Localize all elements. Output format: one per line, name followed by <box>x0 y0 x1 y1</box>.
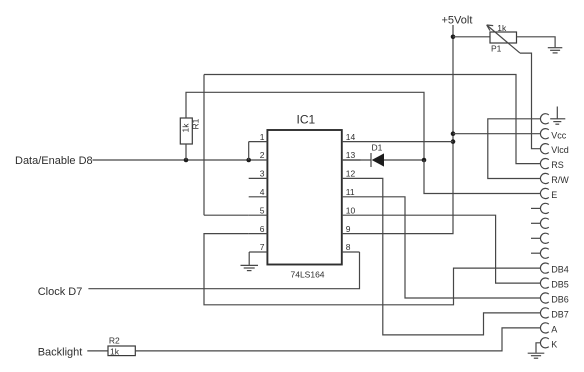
wire pin 1 tied down to pin 2 <box>248 142 250 160</box>
svg-text:2: 2 <box>260 150 265 160</box>
pin 6 lead <box>249 233 268 235</box>
svg-text:DB7: DB7 <box>551 309 569 319</box>
svg-text:Vlcd: Vlcd <box>551 145 569 155</box>
connector pin 8 DB1 arc (unused) <box>540 218 548 228</box>
svg-text:8: 8 <box>346 242 351 252</box>
ground at pin 7 <box>241 252 259 271</box>
connector pin 9 DB2 arc (unused) <box>540 233 548 243</box>
node: Vcc wire tap on +5V rail <box>451 131 456 136</box>
svg-text:Clock D7: Clock D7 <box>38 286 83 298</box>
wire Backlight to R2 <box>87 350 108 352</box>
connector pin 14 DB7 arc <box>540 308 548 318</box>
svg-text:74LS164: 74LS164 <box>291 270 325 280</box>
node: junction dot at pin1/pin2 tie <box>246 158 251 163</box>
svg-text:R1: R1 <box>191 118 201 129</box>
node: junction dot at diode anode / R1 pullup / E <box>422 158 427 163</box>
node: +5V tap to potentiometer <box>451 35 456 40</box>
P1 wiper arrow diagonal <box>487 25 520 53</box>
svg-text:6: 6 <box>260 224 265 234</box>
potentiometer P1 body <box>490 32 517 43</box>
IC U1 body (IC1 74LS164) <box>267 130 341 265</box>
diode D1 <box>371 153 384 167</box>
svg-text:1: 1 <box>260 132 265 142</box>
pin 11 lead <box>342 196 361 198</box>
wire connector gnd pin to R/W pin (R/W tied low) <box>488 119 541 179</box>
connector pin 16 K arc <box>540 338 548 348</box>
pin 1 lead <box>249 141 268 143</box>
pin 2 lead <box>249 159 268 161</box>
svg-text:9: 9 <box>346 224 351 234</box>
wire pin 6 left, down and across to DB4 riser <box>204 234 541 305</box>
pin 13 lead <box>342 159 361 161</box>
svg-text:13: 13 <box>346 150 356 160</box>
wire vertical x=204 from top rail y=74.5 down to pin 5 <box>203 75 205 216</box>
svg-text:IC1: IC1 <box>297 113 316 127</box>
svg-text:4: 4 <box>260 187 265 197</box>
wire R1 bottom to data line <box>185 144 187 160</box>
wire K pin to ground <box>536 343 541 353</box>
+5V rail: vertical down to pin 9 (CLR tied high) <box>361 25 454 234</box>
pin 5 lead <box>249 214 268 216</box>
wire Data/Enable D8 to pin 2 <box>93 159 249 161</box>
svg-text:Backlight: Backlight <box>38 347 83 359</box>
wire long RS branch from x204 top across to RS pin <box>204 75 541 164</box>
wire diode anode to E node <box>384 159 424 161</box>
connector pin 4 RS arc <box>540 159 548 169</box>
pin 7 lead <box>249 251 267 253</box>
wire pin 5 from long RS branch vertical <box>204 214 249 216</box>
svg-text:E: E <box>551 190 557 200</box>
svg-text:D1: D1 <box>372 143 383 153</box>
stub wire DB3 <box>531 252 541 254</box>
connector pin 3 Vlcd arc <box>540 144 548 154</box>
wire pin 14 to +5V rail <box>361 141 454 143</box>
connector pin 5 R/W arc <box>540 173 548 183</box>
svg-text:DB6: DB6 <box>551 295 569 305</box>
svg-text:1k: 1k <box>110 347 120 357</box>
svg-text:DB4: DB4 <box>551 265 569 275</box>
pin 4 lead (QB, unconnected) <box>249 196 268 198</box>
connector pin 10 DB3 arc (unused) <box>540 248 548 258</box>
svg-text:11: 11 <box>346 187 355 197</box>
svg-text:14: 14 <box>346 132 356 142</box>
connector pin 1 (Vss) arc <box>540 114 548 124</box>
svg-text:+5Volt: +5Volt <box>442 15 473 27</box>
wire pin 13 to diode cathode <box>342 159 371 161</box>
ground at P1 <box>548 48 563 53</box>
connector pin 6 E arc <box>540 188 548 198</box>
svg-text:1k: 1k <box>497 23 507 33</box>
svg-text:A: A <box>551 324 557 334</box>
stub wire DB1 <box>531 222 541 224</box>
resistor R2 body <box>108 346 135 356</box>
svg-text:RS: RS <box>551 160 564 170</box>
stub wire DB0 <box>531 207 541 209</box>
svg-text:12: 12 <box>346 169 356 179</box>
svg-text:R/W: R/W <box>551 175 569 185</box>
connector pin 15 A arc <box>540 323 548 333</box>
connector pin 11 DB4 arc <box>540 263 548 273</box>
svg-text:10: 10 <box>346 205 356 215</box>
resistor R1 body <box>180 118 192 144</box>
connector pin 12 DB5 arc <box>540 278 548 288</box>
svg-text:Vcc: Vcc <box>551 130 567 140</box>
wire pin 11 to DB6 <box>361 197 541 298</box>
svg-text:5: 5 <box>260 205 265 215</box>
wire pin 12 to DB7 <box>361 178 541 335</box>
svg-text:7: 7 <box>260 242 265 252</box>
wire P1 right end to ground <box>517 37 556 47</box>
wire P1 wiper to Vlcd pin <box>520 53 541 149</box>
connector pin 13 DB6 arc <box>540 293 548 303</box>
pin 12 lead <box>342 177 361 179</box>
svg-text:Data/Enable D8: Data/Enable D8 <box>15 155 93 167</box>
wire pin 10 to DB5 <box>361 215 541 283</box>
node: pin 14 tap on +5V rail <box>451 139 456 144</box>
wire Vcc pin to +5V rail <box>453 133 541 135</box>
wire Clock D7 to pin 8 <box>88 252 359 289</box>
stub wire DB2 <box>531 237 541 239</box>
wire +5V to P1 left end <box>453 36 490 38</box>
svg-text:DB5: DB5 <box>551 280 569 290</box>
svg-text:1k: 1k <box>181 123 191 133</box>
wire E node down to connector pin E <box>424 160 541 194</box>
ground at K <box>528 353 545 358</box>
pin 10 lead <box>342 214 361 216</box>
svg-text:P1: P1 <box>491 43 502 53</box>
wire R1 top up and across to diode cathode node <box>186 92 424 160</box>
svg-text:3: 3 <box>260 169 265 179</box>
connector pin 7 DB0 arc (unused) <box>540 203 548 213</box>
pin 9 lead <box>342 233 361 235</box>
svg-text:K: K <box>551 339 557 349</box>
pin 14 lead <box>342 141 361 143</box>
wire R2 to connector pin A <box>135 328 541 351</box>
pin 8 lead <box>342 251 360 253</box>
node: junction dot at R1 bottom on data line <box>184 158 189 163</box>
connector pin 2 Vcc arc <box>540 129 548 139</box>
pin 3 lead (QA, unconnected) <box>249 177 268 179</box>
ground at connector Vss pin <box>550 107 565 125</box>
svg-text:R2: R2 <box>109 335 120 345</box>
